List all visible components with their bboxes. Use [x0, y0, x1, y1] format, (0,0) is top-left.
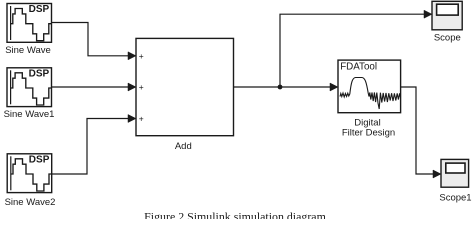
- wire junction to Scope: [280, 10, 432, 87]
- block Scope: [432, 1, 462, 30]
- svg-text:Add: Add: [175, 141, 192, 152]
- block Sine Wave2 (DSP sine source): [7, 154, 52, 193]
- svg-text:FDATool: FDATool: [340, 61, 377, 72]
- block Sine Wave1 (DSP sine source): [7, 68, 52, 107]
- wire Sine Wave1 to Add in2: [52, 83, 136, 91]
- svg-text:DSP: DSP: [29, 154, 50, 165]
- wire Sine Wave2 to Add in3: [52, 115, 136, 175]
- wire Sine Wave to Add in1: [52, 23, 137, 60]
- svg-text:+: +: [139, 82, 144, 92]
- svg-text:Sine Wave1: Sine Wave1: [4, 109, 55, 120]
- svg-text:Scope: Scope: [434, 33, 461, 44]
- svg-text:+: +: [139, 51, 144, 61]
- block Digital Filter Design (FDATool): [338, 60, 401, 113]
- svg-text:DSP: DSP: [29, 68, 50, 79]
- svg-text:Filter Design: Filter Design: [342, 128, 395, 139]
- svg-text:Sine Wave: Sine Wave: [5, 45, 51, 56]
- svg-text:+: +: [139, 114, 144, 124]
- wire Digital Filter Design to Scope1: [401, 87, 441, 178]
- label Digital Filter Design: [342, 118, 395, 139]
- svg-text:Scope1: Scope1: [439, 192, 471, 203]
- svg-text:Sine Wave2: Sine Wave2: [5, 197, 56, 208]
- block Scope1: [441, 159, 469, 187]
- wire junction to Digital Filter Design: [280, 83, 338, 91]
- wire Add output to junction: [234, 86, 281, 88]
- svg-text:DSP: DSP: [29, 4, 50, 15]
- block Sine Wave (DSP sine source): [7, 4, 52, 43]
- svg-text:Figure 2 Simulink simulation d: Figure 2 Simulink simulation diagram: [144, 210, 326, 219]
- junction node: [278, 85, 283, 90]
- block Add (sum): [136, 38, 234, 135]
